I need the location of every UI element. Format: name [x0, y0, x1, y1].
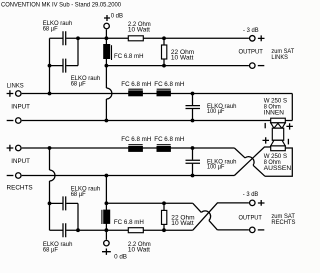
terminal output RECHTS minus — [250, 227, 256, 233]
terminal input LINKS minus — [16, 118, 22, 124]
wire x106 vertical bottom — [105, 176, 107, 240]
wire left vertical top — [49, 38, 51, 93]
speaker AUSSEN dustcap — [274, 140, 282, 145]
terminal 0dB bottom — [104, 240, 110, 246]
svg-text:10 Watt: 10 Watt — [171, 54, 194, 61]
inductor L2 FC 6.8 mH — [128, 89, 143, 96]
svg-text:68 µF: 68 µF — [71, 80, 86, 87]
speaker AUSSEN minus I — [287, 139, 289, 145]
inductor L2b FC 6.8 mH — [128, 145, 143, 152]
wire cap1b branch — [50, 203, 79, 230]
svg-text:0 dB: 0 dB — [111, 12, 123, 19]
speaker W250S INNEN motor — [271, 118, 286, 123]
node C1b to bottom rail junction — [76, 228, 80, 232]
svg-text:RECHTS: RECHTS — [7, 184, 34, 191]
speaker INNEN dustcap — [274, 123, 282, 128]
resistor R1 2.2 Ohm 10 Watt — [128, 36, 143, 41]
capacitor C2b ELKO rauh 68uF plates — [63, 223, 66, 237]
node R2b bottom junction — [162, 228, 166, 232]
capacitor C1b ELKO rauh 68uF plates — [63, 196, 66, 210]
plus input RECHTS — [7, 145, 14, 151]
terminal output RECHTS plus — [250, 200, 256, 206]
terminal output LINKS minus — [250, 63, 256, 69]
node R2 top junction — [162, 36, 166, 40]
wire diagonal B2 output — [193, 203, 249, 230]
capacitor C3b ELKO rauh 100uF plates — [186, 160, 201, 163]
svg-text:INNEN: INNEN — [264, 109, 284, 116]
svg-text:0 dB: 0 dB — [114, 254, 127, 261]
svg-text:68 µF: 68 µF — [43, 26, 58, 33]
plus output RECHTS — [258, 200, 265, 206]
polarity marks — [7, 15, 293, 255]
wire cap2 branch — [50, 38, 79, 65]
svg-text:INPUT: INPUT — [11, 103, 30, 110]
svg-text:- 3 dB: - 3 dB — [243, 27, 259, 34]
terminal 0dB top — [104, 23, 110, 29]
capacitor C1 ELKO rauh 68uF plates — [63, 31, 66, 45]
svg-text:100 µF: 100 µF — [207, 164, 224, 171]
inductor L3b FC 6.8 mH — [157, 145, 171, 152]
svg-text:LINKS: LINKS — [7, 82, 25, 89]
terminal output LINKS plus — [250, 36, 256, 42]
wire hop x106 — [106, 88, 112, 99]
svg-text:FC 6.8 mH: FC 6.8 mH — [121, 136, 151, 143]
node R2b top junction — [162, 201, 166, 205]
capacitor C3 ELKO rauh 100uF plates — [186, 106, 201, 109]
plus 0dB top — [104, 15, 110, 21]
minus input RECHTS — [7, 175, 14, 177]
speaker mid chamber — [272, 128, 283, 140]
node LINKS minus junction — [105, 119, 109, 123]
terminal input LINKS plus — [16, 91, 22, 97]
svg-text:FC 6.8 mH: FC 6.8 mH — [154, 136, 184, 143]
svg-text:RECHTS: RECHTS — [271, 219, 296, 226]
speaker AUSSEN plus — [263, 137, 270, 143]
svg-text:FC 6.8 mH: FC 6.8 mH — [114, 53, 144, 60]
svg-text:FC 6.8 mH: FC 6.8 mH — [121, 81, 151, 88]
wire diagonal A to AUSSEN — [234, 148, 265, 176]
node cap bank left / C2 tap — [48, 64, 52, 68]
inductor L1b FC 6.8 mH vertical bottom — [102, 210, 110, 224]
minus output RECHTS — [258, 229, 265, 231]
speaker AUSSEN cone — [271, 140, 286, 146]
node R2 bottom junction — [162, 64, 166, 68]
wire x106 vertical with hop — [105, 66, 107, 121]
node RECHTS minus junction — [105, 174, 109, 178]
svg-text:CONVENTION MK IV Sub - Stand: CONVENTION MK IV Sub - Stand 29.05.2000 — [1, 2, 121, 9]
svg-text:10 Watt: 10 Watt — [171, 220, 194, 227]
node C3 bottom junction — [191, 119, 195, 123]
wire hop on diagonal A2 — [201, 211, 210, 221]
speaker W250S AUSSEN motor — [271, 146, 286, 151]
wire shunt cap LINKS connector — [192, 94, 194, 121]
wire RECHTS plus y148 — [22, 147, 235, 149]
wire 22ohm vertical top — [163, 38, 165, 65]
node C3b bottom junction — [191, 174, 195, 178]
node RECHTS plus input junction — [48, 146, 52, 150]
wire AUSSEN right edge — [265, 148, 292, 176]
speaker INNEN minus I — [264, 123, 266, 128]
wire top rail y38 — [50, 37, 249, 39]
wire shunt cap RECHTS connector — [192, 148, 194, 176]
node L1b top junction — [105, 201, 109, 205]
resistor R2b 22 Ohm 10 Watt — [162, 210, 167, 224]
wire LINKS minus y120.5 — [22, 120, 293, 122]
minus input LINKS — [7, 120, 14, 122]
svg-text:100 µF: 100 µF — [207, 108, 224, 115]
node C3 top junction — [191, 92, 195, 96]
svg-text:FC 6.8 mH: FC 6.8 mH — [154, 81, 184, 88]
node 0dB tap on top rail — [105, 36, 109, 40]
wire hop left vertical — [50, 170, 56, 181]
svg-text:68 µF: 68 µF — [43, 246, 58, 253]
svg-text:- 3 dB: - 3 dB — [243, 191, 258, 198]
node C3b top junction — [191, 146, 195, 150]
svg-text:OUTPUT: OUTPUT — [239, 215, 262, 222]
wire diagonal A2 output — [193, 203, 249, 230]
wire bottom rail y230.2 — [50, 229, 193, 231]
node L1 bottom junction — [105, 64, 109, 68]
svg-text:FC 6.8 mH: FC 6.8 mH — [114, 219, 144, 226]
wire hop on diagonal A — [245, 157, 254, 166]
speaker INNEN cone — [271, 123, 286, 128]
wire 22ohm vertical bottom — [163, 203, 165, 230]
svg-text:INPUT: INPUT — [11, 158, 30, 165]
minus output LINKS — [258, 65, 265, 67]
svg-text:LINKS: LINKS — [271, 54, 288, 61]
svg-text:AUSSEN: AUSSEN — [264, 165, 292, 172]
node 0dB tap on bottom rail — [105, 228, 109, 232]
inductor L1 FC 6.8 mH vertical top — [103, 44, 111, 60]
wire 0dB stub top — [105, 29, 107, 38]
node cap bank left bottom / C1b tap — [48, 202, 52, 206]
resistor R1b 2.2 Ohm 10 Watt — [128, 228, 143, 233]
terminal input RECHTS plus — [16, 145, 22, 151]
svg-text:OUTPUT: OUTPUT — [239, 49, 263, 56]
wire INNEN right edge — [291, 94, 293, 121]
wire inductor vertical top — [105, 38, 107, 65]
svg-text:10 Watt: 10 Watt — [128, 26, 150, 33]
node LINKS plus input junction — [48, 92, 52, 96]
wire left vertical bottom with hop — [49, 148, 51, 230]
capacitor C2 ELKO rauh 68uF plates — [63, 59, 66, 73]
wire minus rail y66 — [106, 65, 249, 67]
svg-text:68 µF: 68 µF — [71, 191, 86, 198]
wire LINKS plus y93.5 — [22, 93, 293, 95]
plus output LINKS — [258, 35, 265, 41]
wire diagonal B to AUSSEN — [234, 147, 270, 176]
speaker INNEN plus — [286, 123, 293, 129]
wire RECHTS minus y175.5 — [22, 175, 235, 177]
wire mid rail y203.3 — [106, 202, 192, 204]
terminal input RECHTS minus — [16, 173, 22, 179]
resistor R2 22 Ohm 10 Watt — [162, 45, 167, 59]
plus 0dB bottom — [102, 249, 111, 255]
svg-text:10 Watt: 10 Watt — [128, 246, 150, 253]
inductor L3 FC 6.8 mH — [157, 89, 171, 96]
node C2 to top rail junction — [76, 36, 80, 40]
plus input LINKS — [7, 90, 14, 96]
